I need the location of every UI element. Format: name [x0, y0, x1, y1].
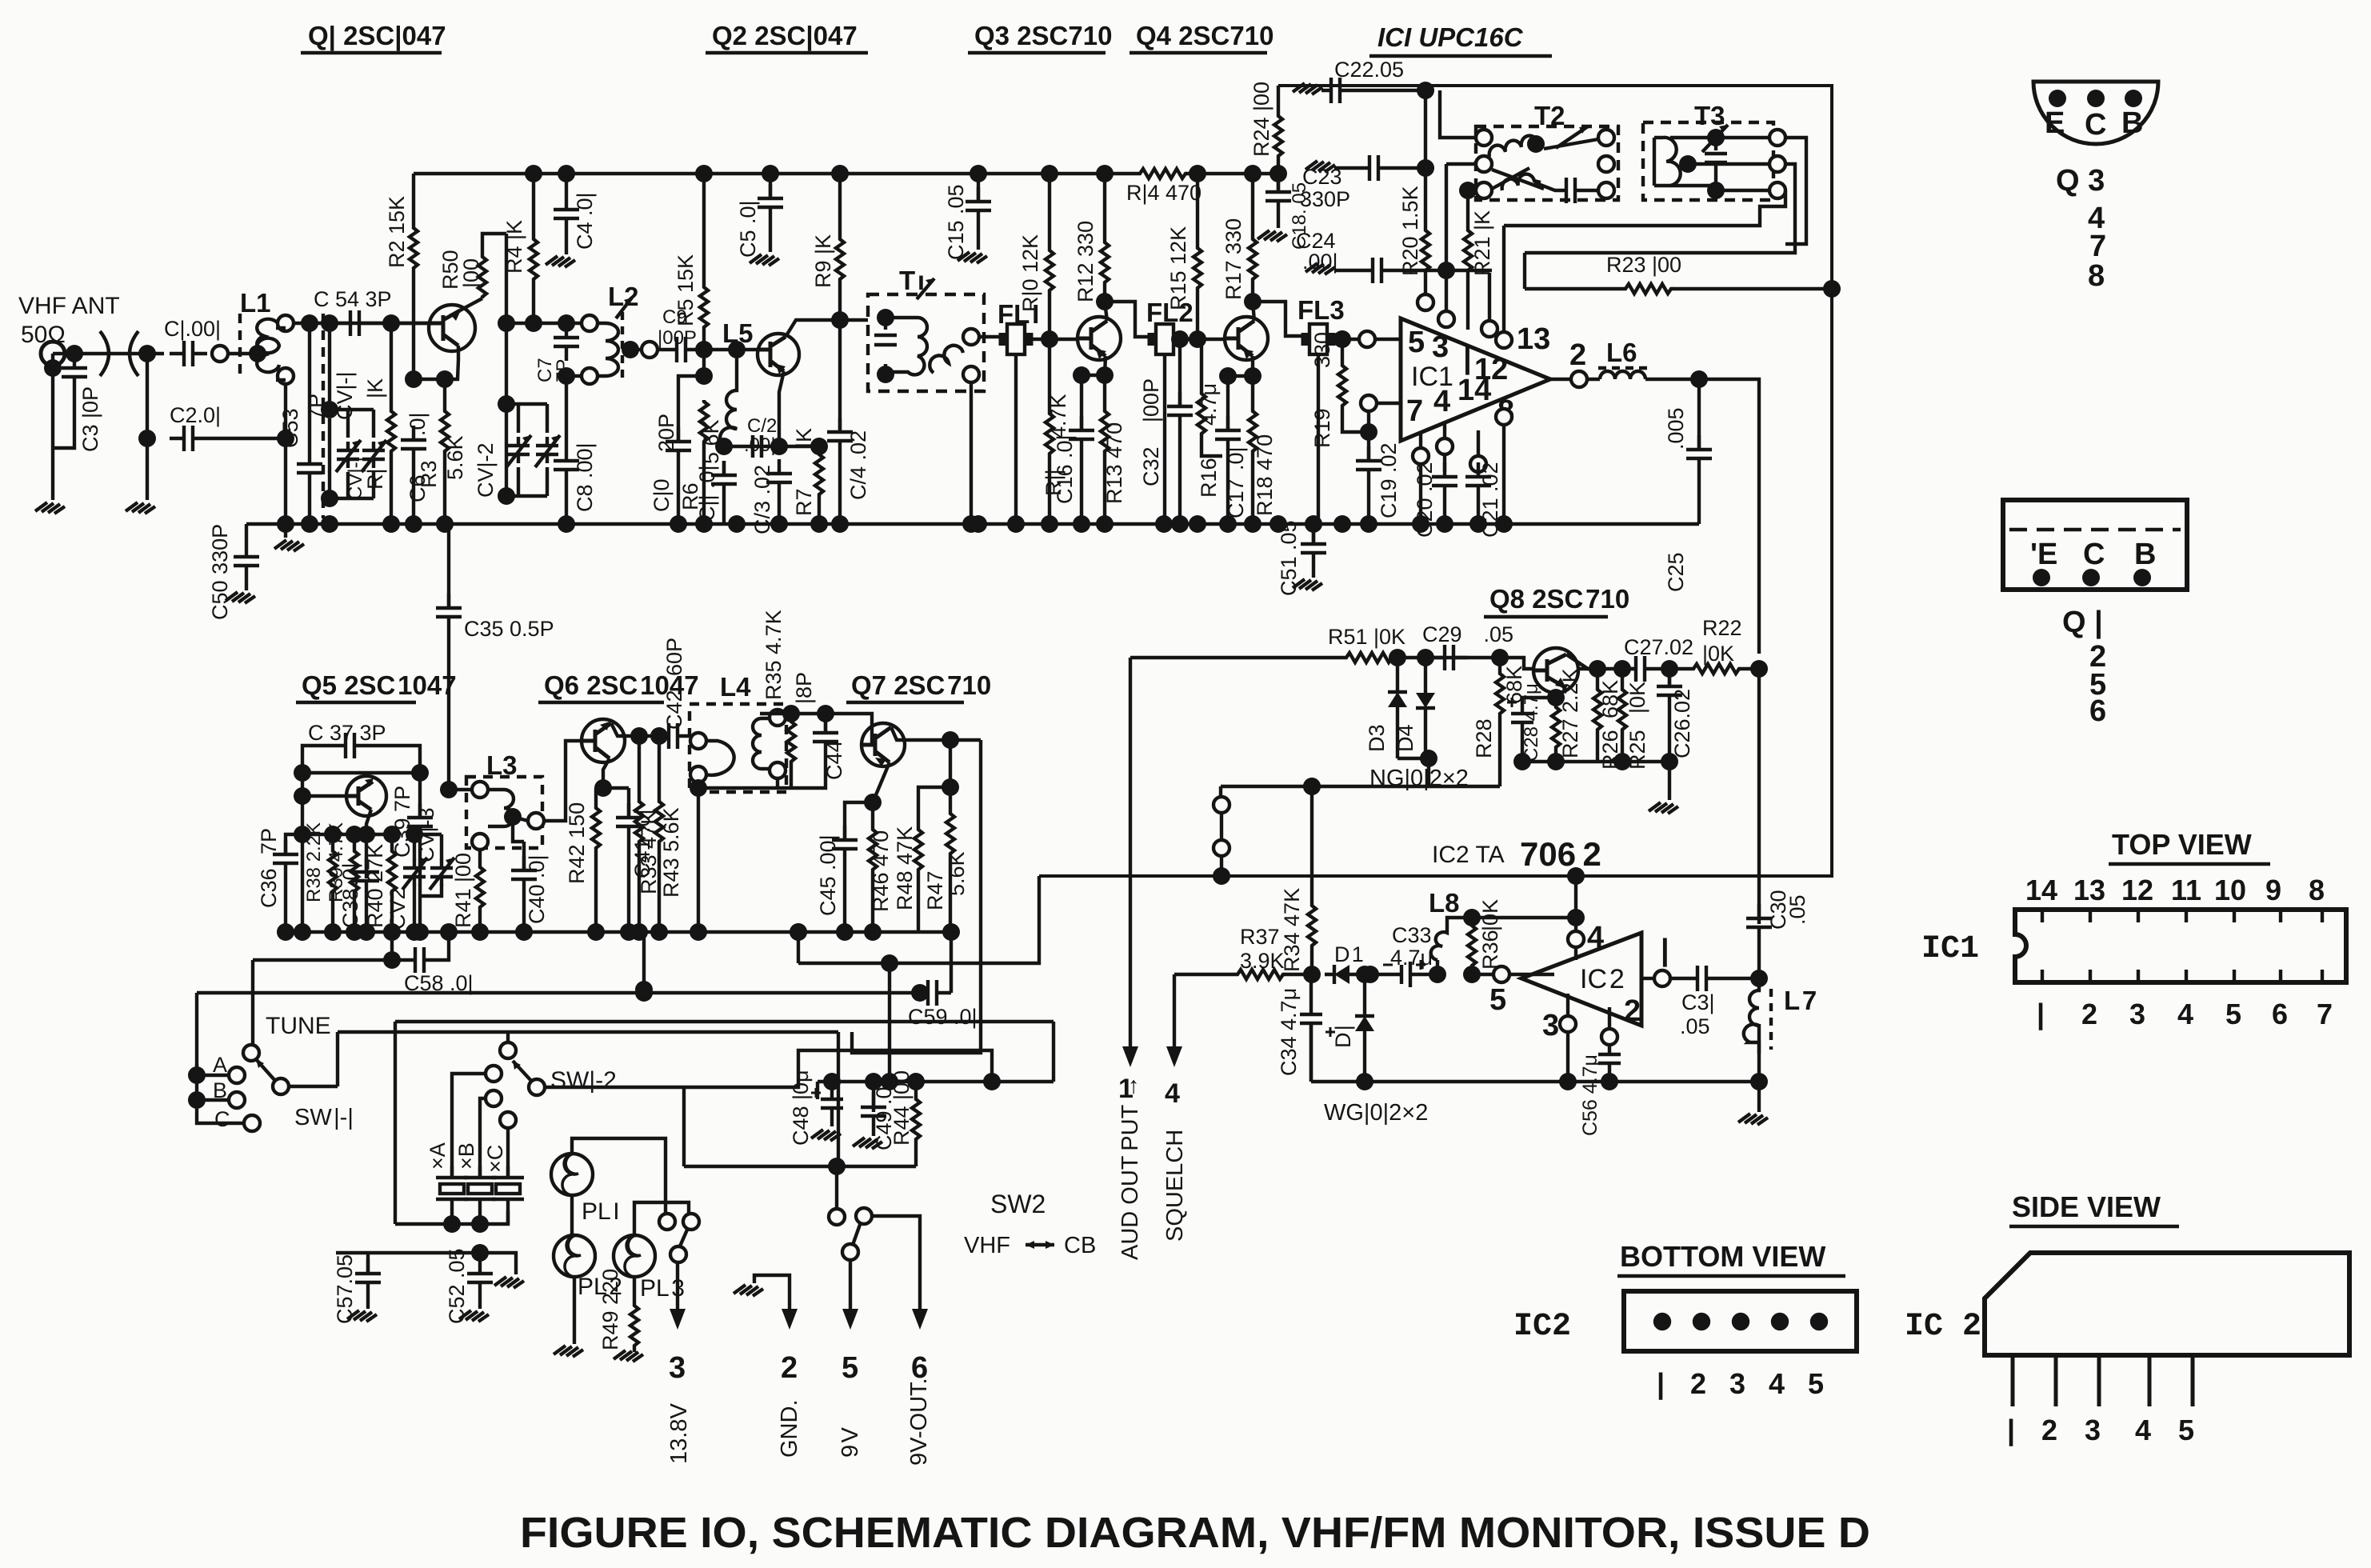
svg-text:7: 7 [2317, 998, 2333, 1030]
svg-text:SQUELCH: SQUELCH [1162, 1130, 1188, 1242]
svg-text:8: 8 [2088, 259, 2105, 293]
svg-text:7: 7 [2089, 230, 2106, 263]
emitter ground line [1522, 760, 1669, 763]
capacitor C37 3P loop [302, 733, 420, 773]
svg-text:B: B [2134, 538, 2156, 571]
resistor R23 100 [1525, 287, 1624, 290]
label R50 100 [438, 250, 483, 290]
feed line [818, 1080, 1054, 1083]
label D1 shunt [1331, 1025, 1355, 1048]
oscillator ground bus [278, 930, 951, 934]
svg-text:|K: |K [792, 428, 816, 448]
svg-text:4.7μ: 4.7μ [1390, 946, 1433, 970]
label C15 .05 [944, 184, 968, 260]
svg-text:ICI UPC16C: ICI UPC16C [1377, 22, 1524, 52]
resistor R43 5.6K [658, 736, 661, 800]
IC1 bottom pin ticks [2042, 970, 2322, 982]
wire Q4 collector to FL3 [1253, 302, 1309, 336]
capacitor C53 7P [308, 323, 311, 450]
T1 primary cap [877, 309, 894, 326]
resistor R12 330 [1096, 165, 1114, 182]
svg-text:5: 5 [1489, 983, 1506, 1017]
svg-text:R41 |00: R41 |00 [451, 853, 475, 928]
svg-text:|00: |00 [459, 258, 483, 288]
label C7 7P [534, 358, 574, 382]
svg-text:IC2: IC2 [1513, 1309, 1571, 1345]
svg-text:C: C [2085, 108, 2106, 142]
trimmer CV1-2 pair [498, 395, 515, 413]
capacitor C45 .001 [845, 802, 873, 840]
svg-text:R23 |00: R23 |00 [1606, 253, 1681, 277]
inductor L3 [472, 782, 488, 798]
audio input line [1174, 973, 1236, 976]
label C2 .01 [170, 403, 221, 427]
label C59 .01 [908, 1005, 978, 1029]
label C57 .05 [333, 1254, 357, 1324]
resistor R1 1K [390, 323, 393, 410]
svg-text:C3 |0P: C3 |0P [78, 386, 102, 452]
capacitor C26 .02 [1668, 669, 1671, 686]
pin 2 column + C56 [1608, 1007, 1611, 1029]
svg-text:.0|: .0| [406, 412, 430, 436]
svg-text:.05: .05 [1680, 1014, 1710, 1038]
capacitor C18 .05 [1277, 174, 1280, 192]
base line from left [1130, 656, 1345, 659]
label R6 5.6K [678, 419, 723, 510]
svg-text:14: 14 [1457, 374, 1491, 407]
resistor R40 27K [383, 826, 401, 843]
T2 primary coil [1489, 136, 1544, 157]
capacitor C6 .01 [401, 426, 426, 463]
resistor R41 100 [478, 850, 482, 866]
pin dot C [2087, 90, 2105, 107]
resistor R19 330 [1333, 330, 1351, 348]
node L2 line left [525, 314, 542, 332]
label R20 1.5K [1398, 186, 1422, 276]
resistor R25 10K [1621, 669, 1624, 688]
label 3 [1542, 1009, 1559, 1042]
T2 crossing wires [1492, 139, 1598, 203]
svg-text:B: B [2121, 106, 2143, 140]
pin13 column [1504, 226, 1525, 340]
svg-text:5: 5 [1408, 326, 1425, 359]
resistor R44 100 [914, 1082, 918, 1098]
capacitor C51 .05 [1312, 524, 1315, 544]
label C52 .05 [445, 1248, 469, 1324]
label C48 10u [789, 1070, 813, 1146]
label 5 [1489, 983, 1506, 1017]
T3 dashed box [1643, 122, 1773, 200]
label C50 330P [208, 524, 232, 620]
wire FL1 to Q3 [1031, 338, 1078, 341]
resistor R42 150 [596, 788, 629, 806]
wires T2 left to columns [1440, 90, 1476, 190]
capacitor C13 .02 [766, 459, 792, 497]
label 13.8V [666, 1403, 692, 1464]
svg-text:R12 330: R12 330 [1074, 221, 1098, 302]
wire C2 to L1 leg [207, 437, 286, 440]
svg-text:2: 2 [1690, 1367, 1706, 1400]
svg-text:.0|: .0| [338, 862, 362, 886]
capacitor C54 3P [336, 310, 374, 336]
capacitor C20 .02 [1432, 462, 1457, 500]
svg-text:L1: L1 [240, 288, 271, 318]
Q7 collector line [891, 727, 981, 740]
label C14 .02 [846, 430, 870, 500]
antenna connector [41, 342, 65, 366]
svg-text:4.7K: 4.7K [1046, 394, 1070, 438]
svg-text:1: 1 [1118, 1074, 1134, 1104]
svg-text:D4: D4 [1393, 724, 1417, 752]
trimmer CV2 [413, 834, 416, 932]
wire to TUNE switch [251, 960, 254, 1045]
FL2 ground leg [1163, 354, 1166, 524]
pin numbers 5 3 1 12 / 7 4 14 [1406, 326, 1514, 428]
label R46 470 [869, 830, 893, 912]
svg-text:BOTTOM VIEW: BOTTOM VIEW [1620, 1240, 1825, 1273]
L7 ground [1757, 1024, 1761, 1082]
label C44 / 18P [792, 672, 846, 780]
T3 terminals [1769, 130, 1785, 146]
L4 dashed box [690, 704, 786, 792]
capacitor C35 0.5P [447, 524, 450, 608]
Q7 collector feed down [852, 740, 981, 1053]
label 2 [1624, 994, 1641, 1028]
IC2 side-view pin numbers [2007, 1414, 2194, 1447]
node Q2 collector [831, 311, 849, 329]
inductor L1 [257, 319, 279, 372]
svg-text:SW |-|: SW |-| [294, 1105, 354, 1130]
label R33 47K [637, 810, 661, 894]
inductor L6 [1600, 371, 1645, 379]
svg-text:C20 .02: C20 .02 [1413, 462, 1437, 538]
L4 secondary coil [753, 718, 770, 769]
node dot at C3 [66, 345, 83, 362]
node on C24 row [1437, 262, 1455, 279]
svg-text:7: 7 [1406, 394, 1423, 428]
diode D1 series [1325, 965, 1360, 984]
svg-text:C33: C33 [1392, 923, 1432, 947]
label R12 330 [1074, 221, 1098, 302]
label C42 60P [662, 638, 686, 730]
resistor R20 1.5K [1417, 82, 1434, 99]
label R44 100 [890, 1070, 914, 1146]
transistor Q7 [861, 723, 905, 766]
resistor R15 12K [1189, 165, 1206, 182]
label C41 .01 [630, 809, 654, 878]
label C6 .01 [406, 412, 430, 502]
label C53 7P [278, 394, 328, 448]
svg-text:TOP VIEW: TOP VIEW [2112, 828, 2252, 861]
label CV2 [386, 887, 410, 930]
svg-text:13.8V: 13.8V [666, 1403, 692, 1464]
svg-text:R51 |0K: R51 |0K [1328, 625, 1405, 649]
svg-text:R|: R| [363, 468, 387, 490]
IC1 output pin 2 [1571, 371, 1587, 387]
svg-text:C27.02: C27.02 [1624, 635, 1693, 659]
inductor L2 [582, 315, 598, 331]
label R43 5.6K [659, 807, 683, 898]
label R51 10K [1328, 625, 1405, 649]
IC2 pin dots [1655, 1314, 1826, 1329]
T2-T3 coupling wires [0, 0, 2, 2]
capacitor C41 .01 [627, 788, 630, 818]
svg-text:4: 4 [2135, 1414, 2151, 1446]
svg-text:C25: C25 [1664, 552, 1688, 592]
label C25 .005 [1664, 407, 1688, 592]
resistor R37 3.9K [1236, 970, 1285, 979]
svg-text:.05: .05 [1785, 894, 1809, 925]
svg-text:|: | [2037, 998, 2045, 1031]
svg-text:R4 |K: R4 |K [502, 220, 526, 274]
svg-text:R35 4.7K: R35 4.7K [762, 610, 786, 700]
label C31 .05 [1680, 990, 1715, 1038]
transistor Q6 [582, 719, 625, 762]
ground under C2 line [126, 502, 155, 514]
trimmer CV1-3 [414, 834, 442, 896]
wire L6 to right column [1645, 379, 1759, 654]
pin columns below triangle [1413, 448, 1429, 464]
svg-text:|00P: |00P [1139, 378, 1163, 422]
label C37 3P [308, 721, 386, 745]
svg-text:'E: 'E [2030, 538, 2057, 571]
svg-text:C39 7P: C39 7P [390, 786, 414, 858]
diode pair bottom bracket [1397, 758, 1429, 786]
capacitor C31 .05 [1697, 966, 1759, 991]
svg-text:R27 2.2K: R27 2.2K [1558, 668, 1582, 758]
contacts A B C [188, 1066, 206, 1084]
squelch arrow 4 [1173, 974, 1176, 1056]
wire T1 to FL1 [979, 335, 999, 338]
label R28 68K [1472, 666, 1526, 758]
svg-text:C40 .0|: C40 .0| [525, 854, 549, 924]
resistor R9 1K [831, 165, 849, 182]
open terminal after C1 [212, 346, 228, 362]
svg-text:R49 220: R49 220 [598, 1269, 622, 1350]
Q5 base column [301, 773, 304, 932]
capacitor C36 7P [286, 834, 302, 854]
label C34 4.7u [1277, 988, 1301, 1076]
svg-text:12: 12 [2121, 874, 2153, 906]
svg-text:C16 .0|: C16 .0| [1053, 434, 1077, 504]
top line to Q7 [760, 710, 872, 745]
svg-text:R|0 12K: R|0 12K [1018, 234, 1042, 312]
svg-text:FL3: FL3 [1297, 295, 1345, 325]
bus junction dots [301, 515, 318, 533]
crystal xC [500, 1112, 516, 1128]
inductor L8 [1436, 960, 1439, 974]
node dot [405, 370, 422, 388]
label R47 5.6K [923, 851, 969, 910]
L1 top terminal [278, 315, 294, 331]
svg-text:R47: R47 [923, 870, 947, 910]
svg-text:.0|: .0| [1224, 446, 1248, 470]
svg-text:C/2: C/2 [747, 415, 777, 437]
label C49 .05 [872, 1074, 896, 1150]
resistor R49 220 [633, 1277, 636, 1304]
capacitor C32 100P [1178, 339, 1182, 406]
T2 dashed box [1476, 126, 1618, 200]
transistor Q5 [346, 776, 386, 816]
svg-text:C36: C36 [257, 868, 281, 908]
node dot R1 top [382, 314, 400, 332]
resistor R16 4.7 [1197, 392, 1205, 437]
resistor R4 1K [525, 165, 542, 182]
pin dot E [2033, 569, 2050, 586]
svg-text:CV|-3: CV|-3 [414, 807, 438, 862]
svg-text:Q2 2SC|047: Q2 2SC|047 [712, 21, 858, 50]
resistor R38 2.2K [324, 826, 342, 843]
svg-text:R16: R16 [1197, 458, 1221, 498]
label C29 .05 [1422, 622, 1513, 646]
resistor R13 470 [1101, 410, 1109, 454]
svg-text:R13 470: R13 470 [1102, 422, 1126, 504]
svg-text:60P: 60P [662, 638, 686, 676]
svg-text:Q5 2SC 1047: Q5 2SC 1047 [302, 670, 457, 700]
label R9 1K [811, 234, 835, 288]
resistor R26 68K [1596, 669, 1599, 688]
label 4 [1587, 921, 1604, 954]
transistor Q8 [1533, 648, 1578, 693]
svg-text:C15 .05: C15 .05 [944, 184, 968, 260]
lamp PL3 [614, 1235, 655, 1277]
capacitor C19 .02 [1367, 411, 1370, 461]
resistor R50 100 [478, 234, 506, 298]
IC1 top pin numbers 14-8 [2025, 874, 2325, 906]
wire L3 tap to Q6 base [544, 741, 582, 821]
svg-text:R9 |K: R9 |K [811, 234, 835, 288]
svg-text:R22: R22 [1702, 616, 1742, 640]
pin 1 output [1641, 977, 1654, 980]
svg-text:×B: ×B [454, 1142, 478, 1170]
svg-text:2: 2 [2081, 998, 2097, 1030]
svg-text:C45 .00|: C45 .00| [816, 834, 840, 916]
label CV1-3 [414, 807, 438, 862]
svg-text:CV|-|: CV|-| [333, 371, 357, 420]
svg-text:C/3 .02: C/3 .02 [750, 465, 774, 534]
label C9 100P [658, 306, 697, 349]
label R17 330 [1221, 218, 1245, 300]
Q6 emitter [603, 758, 610, 788]
T3 cap [1705, 140, 1727, 188]
label C56 4.7u [1579, 1054, 1601, 1136]
filter FL2 [1150, 324, 1180, 354]
Q2 collector up to y400 line [786, 320, 868, 337]
svg-text:T3: T3 [1694, 101, 1725, 130]
svg-text:R46 470: R46 470 [869, 830, 893, 912]
label C27.02 [1624, 635, 1693, 659]
Q2 emitter down [779, 371, 784, 446]
svg-text:4: 4 [2177, 998, 2193, 1030]
resistor R17 330 [1244, 165, 1261, 182]
label R36 10K [1478, 899, 1502, 970]
collector load column [505, 234, 508, 404]
pin 3 column [1560, 1016, 1576, 1032]
svg-text:C56 4.7μ: C56 4.7μ [1579, 1054, 1601, 1136]
capacitor C14 .02 [838, 320, 842, 432]
T2 terminals [1476, 130, 1492, 146]
svg-text:5: 5 [2225, 998, 2241, 1030]
resistor R35 4.7K [790, 714, 793, 720]
svg-text:SW|-2: SW|-2 [550, 1067, 617, 1094]
transistor Q4 [1225, 317, 1268, 360]
label R48 47K [893, 826, 917, 910]
wire SW1-2 to right [545, 1050, 992, 1087]
wire L1 bottom to bus [276, 380, 286, 524]
capacitor C12 .001 [753, 435, 762, 458]
svg-text:|: | [2007, 1414, 2015, 1447]
svg-text:3: 3 [1729, 1367, 1745, 1400]
resistor R36 10K [1470, 918, 1473, 924]
svg-text:R28: R28 [1472, 718, 1496, 758]
svg-text:C/4 .02: C/4 .02 [846, 430, 870, 500]
L2 dashed core [621, 312, 624, 382]
svg-text:3: 3 [669, 1351, 686, 1385]
T3 wires [1670, 138, 1769, 190]
label C4 .01 [573, 192, 597, 250]
resistor R5 15K [695, 165, 713, 182]
capacitor C4 .01 [558, 165, 575, 182]
svg-text:B: B [213, 1078, 227, 1102]
L1 bottom terminal [278, 368, 294, 384]
resistor R21 1K [1459, 182, 1477, 199]
label R11 4.7K [1042, 394, 1070, 496]
ground stub on bus [277, 515, 294, 533]
label GND. [777, 1400, 802, 1458]
capacitor C34 4.7u [1309, 974, 1313, 1014]
svg-text:3: 3 [2129, 998, 2145, 1030]
T1 secondary coil [930, 346, 963, 373]
label Q1 2 5 6 [2062, 606, 2106, 728]
IC2 bottom-view body [1624, 1291, 1857, 1351]
svg-text:D |: D | [1331, 1025, 1355, 1048]
label C1 .001 [164, 317, 221, 341]
CV1-1 dashed line [322, 314, 325, 518]
svg-text:C42: C42 [662, 690, 686, 730]
svg-text:C4 .0|: C4 .0| [573, 192, 597, 250]
label C26.02 [1670, 689, 1694, 758]
label R25 10K [1625, 682, 1649, 770]
label R21 1K [1470, 210, 1494, 276]
svg-text:Q| 2SC|047: Q| 2SC|047 [308, 21, 446, 50]
capacitor C58 .01 [410, 932, 449, 973]
svg-text:GND.: GND. [777, 1400, 802, 1458]
base line [700, 348, 758, 351]
svg-text:5: 5 [2178, 1414, 2194, 1446]
label SQUELCH 4 [1162, 1078, 1188, 1242]
svg-text:C3|: C3| [1681, 990, 1715, 1014]
underline [2009, 1225, 2179, 1228]
ground pin 2 [754, 1275, 790, 1318]
R51 feed column / AUD OUTPUT line [1129, 658, 1132, 1056]
crystal xB [486, 1090, 502, 1106]
crystal common line [395, 1210, 508, 1224]
label C30 .05 [1766, 890, 1809, 930]
T1 dashed box [868, 294, 984, 391]
label C32 100P [1139, 378, 1163, 486]
svg-text:C44: C44 [822, 740, 846, 780]
label R5 15K [674, 254, 698, 326]
label R13 470 [1102, 422, 1126, 504]
svg-text:8: 8 [2309, 874, 2325, 906]
transistor Q1 [429, 305, 475, 351]
pin dot B [2125, 90, 2142, 107]
svg-text:C21 .02: C21 .02 [1478, 462, 1502, 538]
label C20 .02 [1413, 462, 1437, 538]
svg-text:5.6K: 5.6K [945, 851, 969, 896]
transistor case outline Q1/Q2/Q5/Q6 [2003, 500, 2187, 590]
label CV1-1 [333, 371, 366, 500]
